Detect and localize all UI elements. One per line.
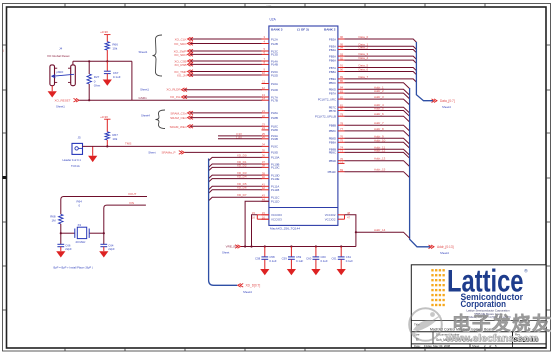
resistor R27 0 Ohm	[87, 60, 101, 101]
crystal X3 20 MHz	[61, 223, 104, 244]
wire PL11D loop	[245, 201, 269, 246]
node VRE_IN	[222, 245, 241, 255]
resistor R68 1M	[50, 214, 63, 224]
watermark stamp circle	[409, 308, 442, 341]
node XD_D0 wire	[209, 153, 262, 161]
bus Data[0:7] (right)	[416, 42, 433, 101]
svg-text:PL6D: PL6D	[271, 88, 278, 92]
svg-text:Addr_[0:13]: Addr_[0:13]	[437, 245, 454, 249]
svg-text:www.elecfans.com: www.elecfans.com	[445, 333, 538, 344]
wire R68 to C66	[60, 224, 62, 244]
ground	[311, 259, 320, 275]
node Data_1 wire (pin 95)	[329, 42, 417, 49]
power +3.3V (R66)	[100, 30, 110, 42]
svg-text:PB11F: PB11F	[328, 170, 337, 174]
wire node down right leg	[131, 61, 133, 100]
node Addr_14 wire	[355, 228, 410, 238]
svg-text:10k: 10k	[112, 137, 117, 141]
svg-text:15: 15	[252, 211, 256, 215]
node Data_7 wire (pin 89)	[329, 75, 417, 82]
svg-text:Sheet4: Sheet4	[442, 105, 451, 109]
svg-text:22pF: 22pF	[65, 247, 72, 251]
svg-text:Sheet4: Sheet4	[243, 290, 252, 294]
title block frame	[411, 265, 546, 348]
svg-text:PL8B: PL8B	[271, 116, 278, 120]
pin 6 PL3D	[262, 51, 279, 57]
pin 43 PL11C	[262, 194, 280, 200]
svg-text:Addr_15: Addr_15	[374, 168, 386, 172]
svg-text:12: 12	[262, 86, 266, 90]
svg-text:XO_JN: XO_JN	[177, 74, 187, 78]
svg-text:Sheet1: Sheet1	[139, 50, 148, 54]
svg-text:TCK1A: TCK1A	[71, 164, 80, 168]
pin 8 PL4B	[262, 61, 278, 67]
node XD_D6 wire	[209, 186, 262, 194]
wire J4 top to node	[73, 61, 132, 65]
node XD_D3 wire	[209, 171, 262, 179]
node Addr_4 wire (pin 81)	[329, 103, 410, 113]
svg-text:+3.3V: +3.3V	[100, 115, 108, 119]
wire VCC3 pin	[218, 132, 262, 136]
svg-text:24: 24	[262, 126, 266, 130]
svg-text:+3.3V: +3.3V	[100, 30, 108, 34]
node Addr_1 wire (pin 84)	[329, 85, 410, 95]
node Addr_2 wire (pin 83)	[329, 89, 410, 99]
svg-text:XO_RSB: XO_RSB	[174, 63, 186, 67]
svg-text:PB6C: PB6C	[329, 81, 336, 85]
ground	[337, 259, 346, 275]
node XO_SDO wire	[174, 42, 262, 46]
svg-text:LATT: LATT	[266, 5, 272, 8]
svg-text:PB9C: PB9C	[329, 151, 336, 155]
svg-text:C60: C60	[306, 257, 312, 261]
svg-text:Data_2: Data_2	[359, 46, 369, 50]
svg-text:R67: R67	[112, 133, 118, 137]
svg-text:TMS: TMS	[125, 142, 131, 146]
svg-text:Addr_13: Addr_13	[374, 157, 386, 161]
svg-text:Data_6: Data_6	[359, 68, 369, 72]
svg-text:®: ®	[524, 268, 528, 274]
capacitor C58 0.1uF	[255, 245, 277, 263]
svg-text:PL9B: PL9B	[271, 137, 278, 141]
svg-text:73: 73	[340, 149, 344, 153]
svg-text:PCLKT2_UPLLB: PCLKT2_UPLLB	[315, 115, 336, 119]
node XO_TMP wire	[174, 70, 262, 74]
svg-text:XO_RLDR: XO_RLDR	[166, 88, 181, 92]
resistor R66 10k	[105, 42, 109, 50]
node Addr_8 wire (pin 77)	[329, 127, 410, 137]
resistor R67 10k	[105, 132, 109, 140]
svg-text:Addr_10: Addr_10	[374, 138, 386, 142]
ground (C64)	[99, 247, 108, 258]
node TMS wire	[83, 142, 263, 147]
node XO_SDN wire	[174, 53, 262, 57]
node Addr_12 wire (pin 73)	[329, 148, 410, 158]
svg-text:PB7A: PB7A	[329, 91, 336, 95]
node Addr_13 wire (pin 70)	[329, 157, 410, 167]
wire VCCIO2 right	[338, 215, 356, 247]
capacitor C61 0.1uF	[331, 245, 353, 263]
title block text	[414, 309, 539, 349]
svg-text:PL5D: PL5D	[271, 73, 278, 77]
svg-text:J5: J5	[78, 135, 82, 139]
svg-text:10k: 10k	[112, 46, 117, 50]
svg-text:94: 94	[340, 46, 344, 50]
capacitor C67 0.1uF	[104, 61, 121, 79]
svg-text:Addr_8: Addr_8	[374, 127, 384, 131]
node XD_D1 wire	[209, 160, 262, 168]
svg-text:47: 47	[347, 215, 351, 219]
svg-text:48: 48	[347, 211, 351, 215]
svg-text:1M: 1M	[51, 218, 56, 222]
node Data_[0:7] connector	[432, 99, 455, 109]
node Addr_[0:13] connector	[429, 245, 454, 255]
node Addr_5 wire (pin 80)	[329, 107, 410, 117]
svg-text:pbNO: pbNO	[57, 70, 64, 74]
svg-text:Addr_2: Addr_2	[374, 89, 384, 93]
svg-text:Sheet1: Sheet1	[56, 105, 65, 109]
ground (under J4)	[48, 86, 57, 98]
svg-text:PB9A: PB9A	[329, 141, 336, 145]
bus XD_D[0:7] (left)	[209, 159, 238, 286]
svg-text:38: 38	[262, 164, 266, 168]
svg-text:35: 35	[262, 149, 266, 153]
pin 12 PL6D	[262, 86, 279, 92]
push button J4 "XO Global Reset"	[47, 47, 75, 86]
pin 36 PL10A	[262, 154, 280, 160]
node Addr_9 wire (pin 76)	[329, 134, 410, 144]
svg-text:42: 42	[262, 186, 266, 190]
svg-text:SRAM_CSn: SRAM_CSn	[170, 112, 187, 116]
wire XIN	[104, 201, 146, 214]
svg-text:XO_SDN: XO_SDN	[174, 53, 186, 57]
svg-text:PB7D: PB7D	[329, 109, 336, 113]
svg-text:PB8A: PB8A	[329, 70, 336, 74]
pin 15 VCCIO3	[262, 211, 269, 215]
svg-text:VRE_IN: VRE_IN	[226, 245, 237, 249]
op-IC U2A MachXO (BANK 3 / BANK 2)	[269, 18, 338, 231]
svg-text:XO_INL: XO_INL	[170, 95, 181, 99]
svg-text:SRAM_WEn: SRAM_WEn	[170, 125, 187, 129]
node XO_JN wire	[177, 73, 262, 77]
svg-text:XO_CLK: XO_CLK	[175, 38, 187, 42]
svg-text:PL2B: PL2B	[271, 42, 278, 46]
node XO_RLDR wire	[140, 88, 262, 92]
pin 13 PL7A	[262, 93, 278, 99]
svg-text:PL2A: PL2A	[271, 37, 278, 41]
svg-text:PL11D: PL11D	[271, 200, 279, 204]
svg-text:PL3D: PL3D	[271, 53, 278, 57]
pin 10 PL5D	[262, 71, 279, 77]
svg-text:XO_SDO: XO_SDO	[174, 42, 187, 46]
wire XOUT	[61, 192, 147, 214]
svg-text:Addr_6: Addr_6	[374, 112, 384, 116]
svg-text:92: 92	[340, 56, 344, 60]
svg-text:C58: C58	[255, 257, 261, 261]
node Data_0 wire (pin 96)	[329, 35, 417, 42]
svg-text:Sheet1: Sheet1	[140, 88, 149, 92]
svg-text:Data_[0:7]: Data_[0:7]	[440, 99, 455, 103]
node Data_6 wire (pin 90)	[329, 68, 417, 75]
node Data_5 wire (pin 91)	[329, 64, 417, 71]
pin 37 PL10B	[262, 160, 280, 166]
svg-text:PL10C: PL10C	[271, 166, 280, 170]
pin 4 PL2B	[262, 40, 278, 46]
svg-text:MachXO_256_TQ144: MachXO_256_TQ144	[270, 226, 300, 230]
node XD_D2 wire	[209, 163, 262, 171]
svg-text:36: 36	[262, 154, 266, 158]
svg-text:C59: C59	[282, 257, 288, 261]
ground (under C67)	[103, 74, 112, 86]
svg-text:VCCIO3: VCCIO3	[271, 213, 282, 217]
svg-text:Date:: Date:	[414, 344, 421, 348]
node XD_D7 wire	[209, 193, 262, 201]
ground	[287, 259, 296, 275]
capacitor C64 22pF	[100, 243, 115, 251]
svg-text:Corporation: Corporation	[461, 298, 507, 309]
svg-text:Data_7: Data_7	[359, 75, 369, 79]
svg-text:XIN: XIN	[129, 201, 134, 205]
pin 40 PL10E	[262, 175, 280, 181]
pin 39 PL10D	[262, 171, 280, 177]
svg-text:SRAMa_P: SRAMa_P	[161, 151, 175, 155]
svg-text:0.1uF: 0.1uF	[269, 259, 276, 263]
svg-text:16: 16	[252, 215, 256, 219]
svg-text:PL4B: PL4B	[271, 63, 278, 67]
ground (at J5)	[88, 146, 97, 162]
pin 38 PL10C	[262, 164, 280, 170]
svg-text:PB8C: PB8C	[329, 129, 336, 133]
svg-text:PL9D: PL9D	[271, 151, 278, 155]
svg-text:40: 40	[262, 175, 266, 179]
svg-text:R27: R27	[94, 75, 100, 79]
svg-text:PB9D: PB9D	[329, 159, 336, 163]
capacitor C66 22pF	[57, 243, 72, 251]
svg-text:Data_0: Data_0	[359, 35, 369, 39]
node Addr_3 wire (pin 82)	[338, 95, 410, 105]
pin 16 VCCIO3	[262, 215, 269, 219]
power +3.3V (R67)	[100, 115, 110, 132]
svg-text:VCCIO3: VCCIO3	[271, 217, 282, 221]
svg-text:VCCIO2: VCCIO2	[325, 217, 336, 221]
pin 3 PL2A	[262, 35, 278, 41]
node SRAMp_P wire	[148, 150, 262, 154]
node XO_SWP wire	[174, 49, 262, 53]
node Data_3 wire (pin 93)	[329, 52, 417, 59]
node PCLKT2 wire (pin 85)	[329, 79, 410, 89]
svg-text:PB8B: PB8B	[329, 124, 336, 128]
svg-text:电子发烧友: 电子发烧友	[452, 313, 552, 334]
svg-text:80: 80	[340, 107, 344, 111]
svg-text:Header 1x2 0.1: Header 1x2 0.1	[63, 158, 82, 162]
node Addr_10 wire (pin 75)	[329, 138, 410, 148]
pin 5 PL3C	[262, 47, 279, 53]
Lattice logo	[431, 262, 528, 309]
svg-text:71: 71	[340, 160, 344, 164]
svg-text:X3: X3	[78, 223, 82, 227]
svg-text:26: 26	[262, 135, 266, 139]
node SRAM_OEn wire	[170, 116, 262, 120]
svg-text:11: 11	[262, 80, 265, 84]
svg-text:Addr_12: Addr_12	[374, 148, 386, 152]
svg-text:XOUT: XOUT	[128, 192, 137, 196]
node Addr_6 wire (pin 79)	[338, 112, 410, 122]
svg-text:XD_D0: XD_D0	[237, 153, 247, 157]
svg-text:PL8D: PL8D	[271, 128, 278, 132]
node XO_INL wire	[170, 95, 262, 99]
node XO_CLK wire	[175, 37, 262, 41]
svg-text:10: 10	[262, 71, 266, 75]
brace XO group + Sheet1	[153, 35, 163, 76]
svg-text:Data_4: Data_4	[359, 56, 369, 60]
svg-text:34: 34	[262, 143, 266, 147]
svg-text:U2A: U2A	[270, 18, 277, 22]
svg-text:90: 90	[340, 68, 344, 72]
svg-text:PL6A: PL6A	[271, 82, 278, 86]
node Data_2 wire (pin 94)	[329, 46, 417, 53]
pin 23 PL8C	[262, 123, 279, 129]
bus Addr[0:13] (right)	[410, 88, 430, 247]
svg-text:Sheet4: Sheet4	[141, 114, 150, 118]
header J5 "Header 1x2 0.1"	[63, 135, 83, 168]
svg-text:Sheet4: Sheet4	[440, 251, 449, 255]
svg-text:PCLKT2_URC: PCLKT2_URC	[318, 97, 336, 101]
svg-text:PL9C: PL9C	[271, 145, 278, 149]
svg-text:Addr_5: Addr_5	[374, 107, 384, 111]
ground	[260, 259, 269, 275]
ground (C66)	[56, 247, 65, 258]
pin 22 PL8B	[262, 114, 278, 120]
node XO_RSB wire	[174, 63, 262, 67]
pin 35 PL9D	[262, 149, 279, 155]
svg-text:22pF: 22pF	[108, 247, 115, 251]
svg-text:XD_D2: XD_D2	[237, 163, 247, 167]
svg-text:PL10E: PL10E	[271, 177, 280, 181]
svg-text:82: 82	[340, 95, 344, 99]
svg-text:Addr_3: Addr_3	[374, 95, 384, 99]
svg-text:0.1uF: 0.1uF	[113, 75, 121, 79]
wire VCC18 pin	[218, 135, 262, 139]
wire R67 to TMS	[106, 140, 108, 147]
svg-text:XD_D4: XD_D4	[237, 175, 247, 179]
node XD_D[0:7] connector	[238, 284, 261, 295]
svg-text:20 MHz: 20 MHz	[76, 240, 87, 244]
node Addr_11 wire (pin 74)	[329, 145, 410, 155]
svg-text:Addr_14: Addr_14	[374, 228, 386, 232]
svg-text:GSRn: GSRn	[139, 96, 148, 100]
wire VCC rail	[241, 246, 356, 248]
svg-text:96: 96	[340, 35, 344, 39]
svg-text:XD_D7: XD_D7	[237, 193, 247, 197]
svg-text:SRAM_OEn: SRAM_OEn	[170, 116, 187, 120]
svg-text:0.1uF: 0.1uF	[321, 259, 328, 263]
pin stub (n.c.)	[338, 160, 345, 164]
pin 41 PL11A	[262, 183, 280, 189]
svg-text:(1 OF 3): (1 OF 3)	[297, 28, 309, 32]
svg-text:78: 78	[340, 121, 344, 125]
pin 21 PL8A	[262, 109, 278, 115]
capacitor C59 0.1uF	[282, 245, 304, 263]
wire XIN to C64	[103, 214, 105, 244]
svg-text:XO_RESET: XO_RESET	[55, 98, 71, 102]
node XO_RESET / GSRn wire	[55, 96, 263, 109]
svg-text:PB4A: PB4A	[329, 48, 336, 52]
svg-text:Sheet: Sheet	[222, 251, 230, 255]
svg-text:J4: J4	[59, 47, 63, 51]
pin 14 PL7B	[262, 96, 278, 102]
node XD_D4 wire	[209, 175, 262, 183]
svg-text:0.1uF: 0.1uF	[296, 259, 303, 263]
pin 24 PL8D	[262, 126, 279, 132]
node Addr_15 wire (pin 69)	[328, 168, 410, 178]
svg-text:0.1uF: 0.1uF	[346, 259, 353, 263]
node XD_D5 wire	[209, 182, 262, 190]
svg-text:XD_D[0:7]: XD_D[0:7]	[246, 284, 261, 288]
svg-text:PB6A: PB6A	[329, 58, 336, 62]
brace SRAM group + Sheet4	[156, 110, 166, 129]
watermark text	[445, 313, 553, 345]
node Addr_7 wire (pin 78)	[329, 121, 410, 131]
svg-text:PB2A: PB2A	[329, 37, 336, 41]
svg-text:22: 22	[262, 114, 266, 118]
svg-text:Ohm: Ohm	[94, 84, 101, 88]
svg-text:21: 21	[262, 109, 266, 113]
svg-text:VCCIO2: VCCIO2	[325, 213, 336, 217]
svg-text:77: 77	[340, 127, 344, 131]
svg-text:ByP = ByP + Install Place ( By: ByP = ByP + Install Place ( ByP )	[54, 265, 93, 269]
svg-text:Addr_7: Addr_7	[374, 121, 384, 125]
node XO_CSB wire	[174, 59, 262, 63]
node SRAM_WEn wire	[170, 125, 262, 129]
svg-text:C61: C61	[331, 257, 337, 261]
svg-text:BANK 3: BANK 3	[271, 28, 283, 32]
capacitor C60 0.1uF	[306, 245, 328, 263]
svg-text:XO Global Reset: XO Global Reset	[47, 54, 70, 58]
svg-text:PL8A: PL8A	[271, 111, 278, 115]
pin 7 PL4A	[262, 57, 278, 63]
svg-text:Sheet: Sheet	[148, 150, 156, 154]
svg-text:69: 69	[340, 168, 344, 172]
svg-text:BANK 2: BANK 2	[324, 28, 336, 32]
node Data_4 wire (pin 92)	[329, 56, 417, 63]
svg-text:PL7B: PL7B	[271, 99, 278, 103]
svg-text:85: 85	[340, 79, 344, 83]
pin 9 PL5C	[262, 68, 279, 74]
svg-text:PL10A: PL10A	[271, 156, 280, 160]
svg-text:75: 75	[340, 139, 344, 143]
pin 25 PL9A	[262, 132, 278, 138]
svg-text:79: 79	[340, 112, 344, 116]
pin 11 PL6A	[262, 80, 278, 86]
svg-text:14: 14	[262, 96, 266, 100]
pin 26 PL9B	[262, 135, 278, 141]
pin 44 PL11D	[262, 198, 280, 204]
wire R66 to node	[106, 50, 108, 61]
svg-text:XD_D6: XD_D6	[237, 186, 247, 190]
svg-text:83: 83	[340, 89, 344, 93]
wire VCCIO3 left	[250, 215, 269, 248]
svg-text:PL11B: PL11B	[271, 188, 279, 192]
node SRAM_CSn wire	[170, 111, 262, 115]
pin 42 PL11B	[262, 186, 280, 192]
pin 34 PL9C	[262, 143, 279, 149]
